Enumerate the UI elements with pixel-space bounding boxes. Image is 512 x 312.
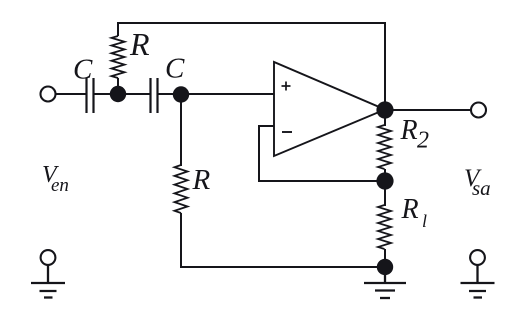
wire: node B to op-amp + input (181, 93, 274, 95)
op-amp - pin mark (282, 131, 292, 133)
wire: bottom R to ground rail (181, 213, 385, 267)
wire: R1 to ground node (384, 249, 386, 267)
svg-text:C: C (165, 53, 185, 85)
node C junction dot (R2/R1) (376, 172, 393, 189)
svg-text:R: R (129, 26, 150, 62)
input reference terminal (bottom left) (41, 250, 56, 265)
capacitor C (second), plates (151, 78, 158, 113)
wire: feedback top rail from R top to op-amp output (118, 23, 385, 103)
svg-text:sa: sa (472, 176, 491, 200)
wire: inverting input loop (259, 126, 385, 181)
input terminal circle (41, 87, 56, 102)
op-amp + pin mark (282, 82, 291, 91)
wire: second C to node B (158, 93, 182, 95)
ground (bottom right) (461, 265, 495, 298)
op-amp U1 (274, 62, 385, 156)
output reference terminal (bottom right) (470, 250, 485, 265)
wire: node C to R1 (384, 181, 386, 206)
ground (bottom left) (31, 265, 65, 298)
wire: input terminal to C left plate (55, 93, 86, 95)
resistor R2 (378, 125, 391, 169)
wire: R2 to node C (384, 169, 386, 181)
wire: output node to R2 (384, 110, 386, 126)
output terminal circle (471, 103, 486, 118)
wire: C to node A (94, 93, 119, 95)
resistor R1 (378, 205, 391, 249)
svg-text:2: 2 (417, 128, 429, 154)
node B junction dot (173, 86, 189, 102)
ground node junction dot (377, 259, 393, 275)
node A junction dot (110, 86, 126, 102)
wire: node A to second C (118, 93, 151, 95)
resistor R (bottom, to ground) (175, 165, 188, 213)
svg-text:C: C (73, 54, 93, 86)
wire: R bottom to node A (117, 78, 119, 94)
wire: node B down to R (180, 94, 182, 166)
svg-text:en: en (51, 175, 69, 196)
svg-text:l: l (422, 211, 427, 231)
wire: output to output terminal (385, 109, 471, 111)
svg-text:R: R (401, 194, 419, 225)
svg-text:R: R (400, 115, 418, 146)
output node junction dot (376, 101, 393, 118)
resistor R (feedback, top) (112, 36, 125, 78)
capacitor C (first), plates (87, 78, 94, 113)
svg-text:R: R (192, 164, 211, 196)
ground (center, below R1) (364, 275, 406, 298)
